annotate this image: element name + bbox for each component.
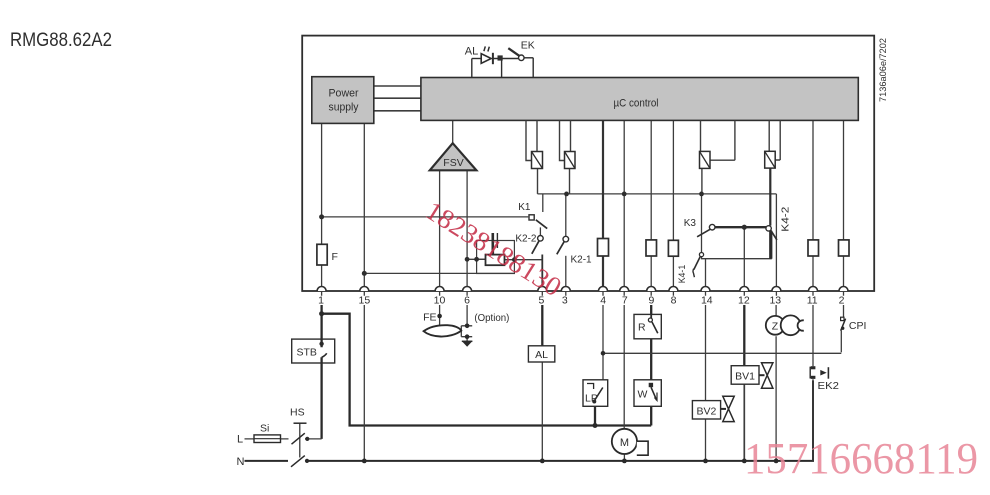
svg-text:K1: K1 bbox=[518, 202, 531, 213]
svg-text:M: M bbox=[620, 437, 629, 449]
svg-text:4: 4 bbox=[600, 295, 606, 307]
svg-text:1: 1 bbox=[318, 295, 324, 307]
svg-text:11: 11 bbox=[807, 295, 818, 307]
svg-text:FSV: FSV bbox=[443, 157, 463, 169]
svg-text:(Option): (Option) bbox=[474, 312, 509, 324]
svg-text:Power: Power bbox=[329, 88, 359, 100]
svg-text:EK2: EK2 bbox=[818, 380, 840, 392]
svg-text:14: 14 bbox=[701, 295, 713, 307]
svg-text:15716668119: 15716668119 bbox=[744, 434, 978, 483]
svg-text:LP: LP bbox=[585, 393, 598, 405]
svg-text:K4-1: K4-1 bbox=[677, 265, 688, 284]
svg-text:3: 3 bbox=[562, 295, 568, 307]
svg-text:15: 15 bbox=[359, 295, 371, 307]
svg-text:EK: EK bbox=[521, 40, 535, 52]
svg-text:9: 9 bbox=[648, 295, 654, 307]
svg-text:8: 8 bbox=[671, 295, 677, 307]
svg-text:AL: AL bbox=[535, 349, 548, 361]
svg-text:RMG88.62A2: RMG88.62A2 bbox=[10, 29, 112, 51]
svg-text:K2-2: K2-2 bbox=[515, 234, 537, 245]
svg-text:W: W bbox=[638, 389, 648, 401]
svg-text:Si: Si bbox=[260, 423, 269, 435]
svg-text:F: F bbox=[332, 251, 338, 263]
svg-text:7: 7 bbox=[622, 295, 628, 307]
svg-text:10: 10 bbox=[434, 295, 446, 307]
svg-text:HS: HS bbox=[290, 407, 305, 419]
svg-text:13: 13 bbox=[769, 295, 781, 307]
svg-text:CPI: CPI bbox=[849, 320, 867, 332]
svg-text:R: R bbox=[638, 322, 646, 334]
svg-text:6: 6 bbox=[464, 295, 470, 307]
svg-text:AL: AL bbox=[465, 46, 478, 58]
svg-text:7136a06e/7202: 7136a06e/7202 bbox=[878, 38, 889, 102]
svg-text:BV1: BV1 bbox=[735, 371, 755, 383]
svg-text:Z: Z bbox=[772, 321, 779, 333]
svg-text:FE: FE bbox=[423, 312, 436, 324]
svg-text:N: N bbox=[237, 456, 245, 468]
svg-text:L: L bbox=[237, 434, 243, 446]
svg-text:12: 12 bbox=[738, 295, 750, 307]
svg-text:µC control: µC control bbox=[614, 98, 659, 110]
svg-text:supply: supply bbox=[329, 102, 359, 114]
svg-text:K4-2: K4-2 bbox=[780, 206, 791, 232]
svg-text:K3: K3 bbox=[684, 218, 697, 229]
svg-text:BV2: BV2 bbox=[696, 406, 716, 418]
svg-text:2: 2 bbox=[839, 295, 845, 307]
svg-text:K2-1: K2-1 bbox=[571, 255, 593, 266]
svg-text:STB: STB bbox=[297, 347, 317, 359]
